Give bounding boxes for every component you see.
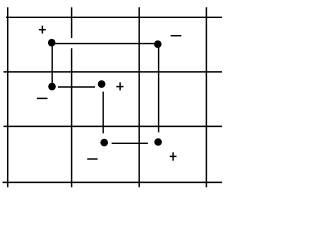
grid horizontal wire row3 — [4, 125, 223, 127]
node F — [154, 138, 162, 146]
grid vertical wire col1 — [7, 7, 9, 187]
label - near node C — [37, 97, 48, 99]
wire node C to node D — [58, 86, 95, 88]
wire node A to node C — [51, 43, 53, 86]
wire node E to node F — [112, 142, 148, 144]
grid vertical wire col3 — [138, 7, 140, 187]
node E — [100, 139, 108, 147]
grid horizontal wire row2 — [4, 71, 223, 73]
label - near node B — [171, 35, 182, 37]
label + near node D — [116, 82, 123, 90]
grid vertical wire col2 upper segment — [71, 7, 73, 38]
wire node D to node E — [102, 92, 104, 134]
node C — [48, 83, 56, 91]
label + near node A — [39, 26, 46, 34]
wire node B to node F — [158, 45, 160, 132]
wire node A to node B — [52, 43, 156, 45]
grid horizontal wire row4 — [3, 181, 223, 183]
node D — [98, 80, 106, 88]
node B — [154, 40, 162, 48]
grid vertical wire col2 lower segment — [71, 48, 73, 187]
label - near node E — [87, 158, 97, 160]
grid horizontal wire row1 — [6, 16, 222, 18]
node A — [48, 39, 56, 47]
label + near node F — [170, 152, 177, 160]
grid vertical wire col4 — [205, 7, 207, 187]
